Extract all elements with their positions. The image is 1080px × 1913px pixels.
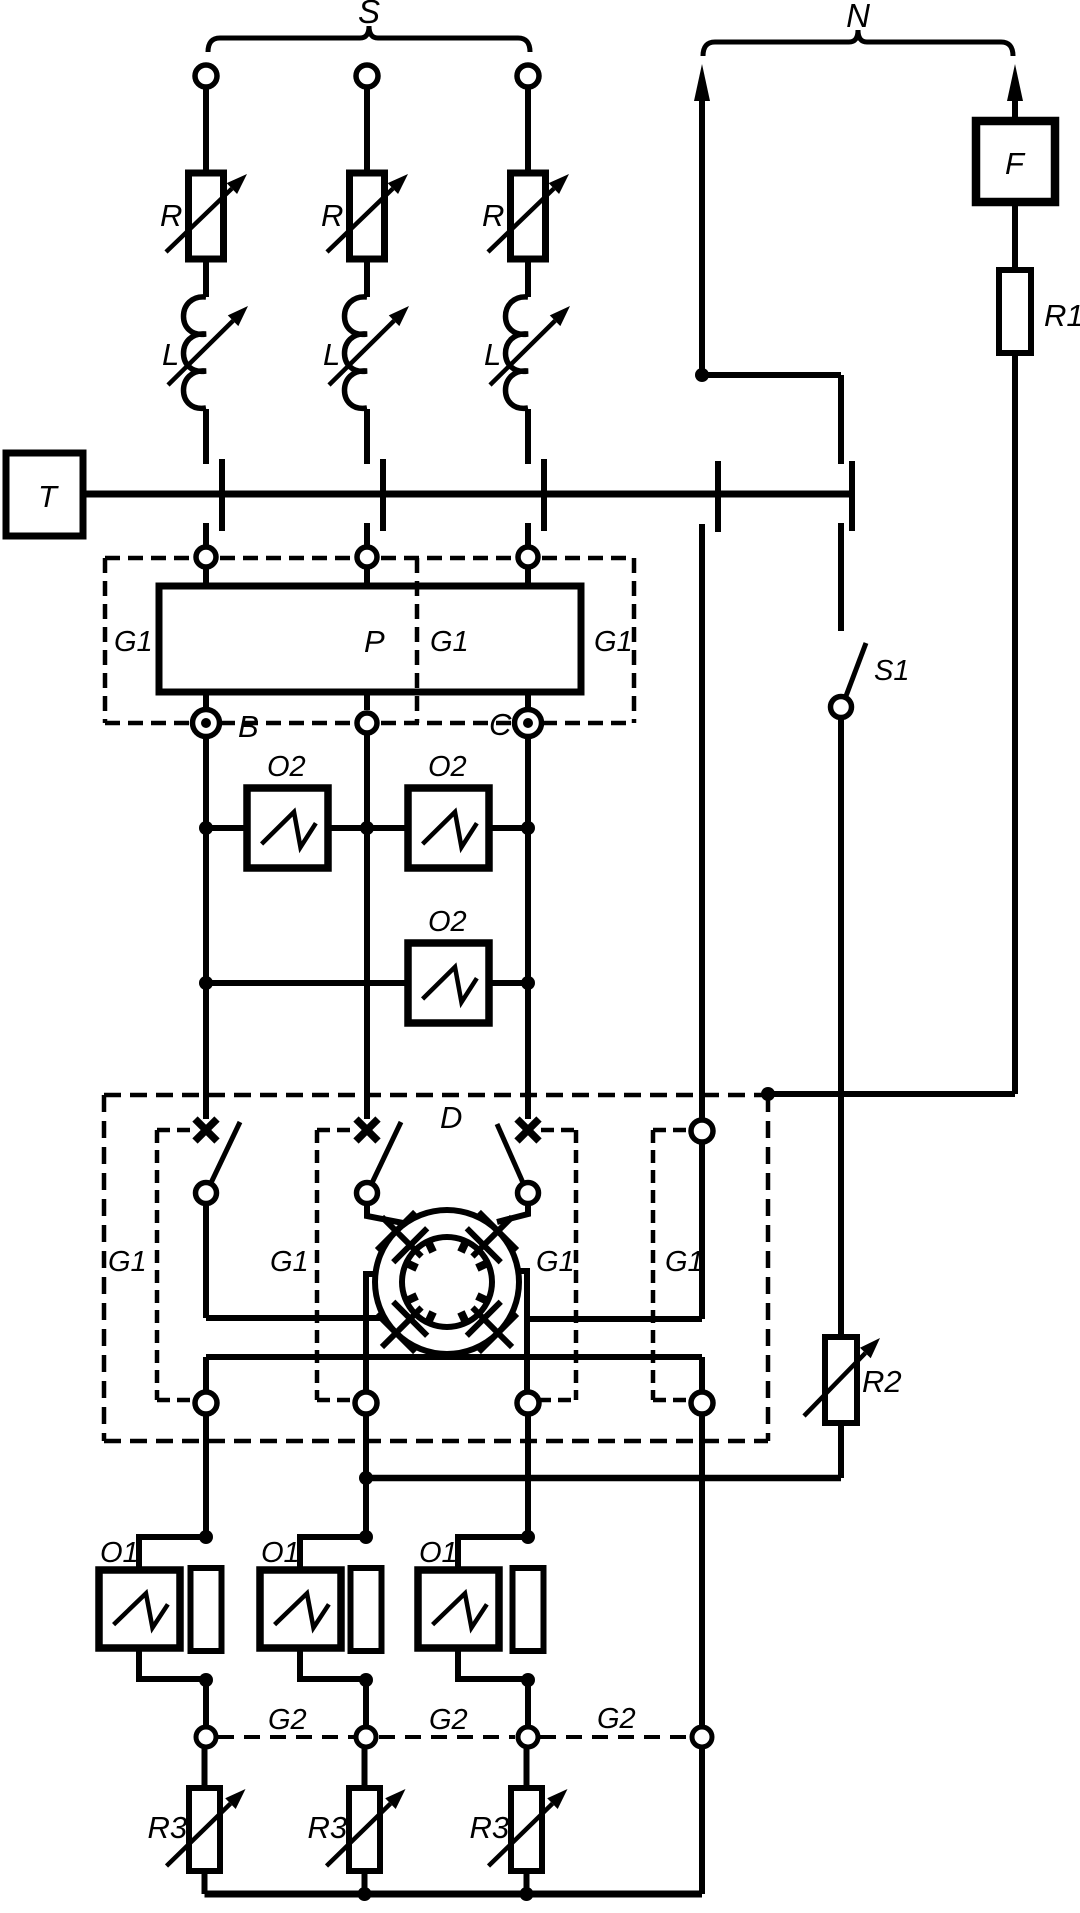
svg-text:G2: G2 xyxy=(597,1703,636,1735)
svg-text:G1: G1 xyxy=(536,1246,575,1278)
svg-text:G1: G1 xyxy=(430,626,469,658)
svg-text:R1: R1 xyxy=(1044,298,1080,333)
svg-text:G1: G1 xyxy=(665,1246,704,1278)
svg-text:L: L xyxy=(484,337,501,372)
svg-text:O1: O1 xyxy=(419,1537,458,1569)
svg-text:O2: O2 xyxy=(428,751,467,783)
svg-text:D: D xyxy=(440,1100,462,1135)
svg-text:G1: G1 xyxy=(270,1246,309,1278)
svg-text:G2: G2 xyxy=(429,1704,468,1736)
svg-text:O2: O2 xyxy=(267,751,306,783)
svg-text:O1: O1 xyxy=(100,1537,139,1569)
svg-text:R3: R3 xyxy=(470,1810,510,1845)
svg-text:G1: G1 xyxy=(108,1246,147,1278)
svg-text:N: N xyxy=(846,0,870,34)
svg-text:O2: O2 xyxy=(428,906,467,938)
svg-text:L: L xyxy=(323,337,340,372)
svg-text:C: C xyxy=(489,707,512,742)
svg-text:R3: R3 xyxy=(308,1810,348,1845)
svg-text:P: P xyxy=(364,624,385,659)
svg-text:G1: G1 xyxy=(594,626,633,658)
svg-text:G2: G2 xyxy=(268,1704,307,1736)
svg-text:R: R xyxy=(321,198,343,233)
svg-text:S1: S1 xyxy=(874,655,909,687)
svg-text:R: R xyxy=(160,198,182,233)
svg-text:S: S xyxy=(358,0,380,30)
svg-text:L: L xyxy=(162,337,179,372)
svg-text:F: F xyxy=(1005,146,1026,181)
svg-text:T: T xyxy=(38,479,59,514)
svg-text:G1: G1 xyxy=(114,626,153,658)
svg-text:O1: O1 xyxy=(261,1537,300,1569)
svg-text:B: B xyxy=(238,709,259,744)
svg-text:R: R xyxy=(482,198,504,233)
svg-text:R3: R3 xyxy=(148,1810,188,1845)
svg-text:R2: R2 xyxy=(862,1364,902,1399)
